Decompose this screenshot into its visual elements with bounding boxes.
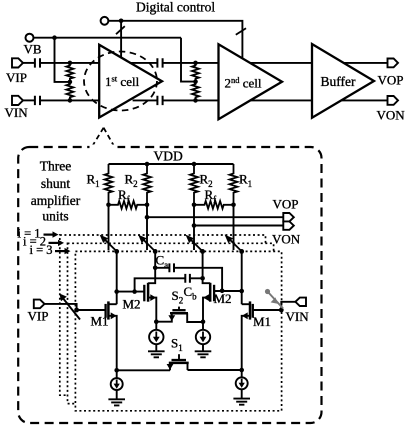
node: Cb to left gate bbox=[132, 289, 137, 294]
dotted unit box i=2 bbox=[68, 243, 274, 403]
ground bottom right bbox=[233, 399, 250, 405]
svg-text:Digital control: Digital control bbox=[136, 0, 215, 15]
coupling cap VIP input bbox=[35, 58, 40, 67]
node: bias mid 1st bbox=[68, 80, 73, 85]
current source bottom right bbox=[241, 370, 243, 377]
wire: VIN to coupling cap bbox=[23, 99, 34, 101]
current source bottom left bbox=[116, 370, 118, 378]
capacitor Ca plates bbox=[169, 263, 174, 272]
arrow i3 bbox=[55, 250, 65, 252]
wire: VON output bbox=[194, 225, 283, 227]
wire: VIP to M1L gate bbox=[45, 304, 77, 310]
svg-text:M1: M1 bbox=[253, 314, 271, 329]
wire: VB drop to 2nd bias network bbox=[181, 38, 196, 82]
capacitor Ca wire bbox=[155, 268, 222, 291]
feedback resistor Rf left bbox=[109, 201, 148, 209]
interstage cap bottom bbox=[157, 96, 162, 105]
svg-text:VOP: VOP bbox=[378, 73, 404, 88]
node: M2L source bbox=[154, 319, 159, 324]
selector switch 1 bbox=[104, 238, 117, 251]
dashed callout leg right bbox=[104, 128, 116, 149]
dashed callout leg left bbox=[92, 128, 103, 147]
wire: VIN rail to 1st cell bbox=[41, 99, 99, 101]
svg-text:VOP: VOP bbox=[273, 197, 299, 212]
node: VDD R2 left bbox=[145, 162, 150, 167]
terminal VB bbox=[26, 34, 34, 42]
resistor R2 left bbox=[143, 164, 151, 205]
svg-text:VIN: VIN bbox=[286, 309, 310, 324]
wire: digital control drop to 1st cell bbox=[120, 21, 122, 58]
wire: tail right bbox=[188, 369, 242, 371]
wire: VB bias line bbox=[34, 37, 181, 39]
svg-text:i = 3: i = 3 bbox=[30, 243, 53, 257]
gap in dashed box top for callout bbox=[90, 145, 118, 150]
wire: column 2 to switch bbox=[146, 205, 148, 250]
wire: VB drop to 1st bias network bbox=[55, 38, 70, 82]
wire: 2nd cell to buffer top bbox=[250, 62, 312, 64]
node: VIN rail bias tap bbox=[68, 98, 73, 103]
selector switch 4 bbox=[229, 238, 242, 251]
node: tail left bbox=[114, 368, 119, 373]
svg-text:shunt: shunt bbox=[41, 176, 71, 191]
wire: 1st cell out bottom bbox=[133, 99, 157, 101]
coupling cap VIN input bbox=[35, 96, 40, 105]
svg-text:VIN: VIN bbox=[5, 105, 29, 120]
bias resistor upper (2nd stage) bbox=[192, 63, 199, 82]
transistor M2 right bbox=[214, 290, 242, 292]
arrow i2 bbox=[49, 242, 59, 244]
svg-text:2nd cell: 2nd cell bbox=[225, 75, 262, 91]
wire: buffer out VOP bbox=[344, 62, 388, 64]
node: bias mid 2nd bbox=[193, 79, 198, 84]
transistor M2 left bbox=[117, 291, 145, 293]
node: M2R source bbox=[201, 319, 206, 324]
wire: column 3 to switch bbox=[193, 205, 195, 250]
node: VDD R2 right bbox=[192, 162, 197, 167]
node: Rf right A bbox=[192, 203, 197, 208]
wire: digital control bus to 2nd cell bbox=[109, 21, 243, 58]
ground M2R tail bbox=[195, 351, 212, 357]
node: Rf right B bbox=[231, 203, 236, 208]
wire: VIP to coupling cap bbox=[23, 62, 34, 64]
node: VON tap bbox=[192, 223, 197, 228]
wire: bottom rail to 2nd cell bbox=[163, 99, 218, 101]
wire: VIP rail to 1st cell bbox=[41, 62, 99, 64]
svg-text:VDD: VDD bbox=[154, 149, 183, 164]
svg-text:VON: VON bbox=[272, 232, 301, 247]
node: Rf left A bbox=[106, 203, 111, 208]
port VOP (bottom) bbox=[283, 213, 294, 221]
selector arrow VIN (gray) bbox=[265, 289, 283, 308]
wire: 2nd cell to buffer bottom bbox=[251, 99, 312, 101]
svg-text:M2: M2 bbox=[214, 291, 232, 306]
terminal: digital control input bbox=[101, 17, 109, 25]
port VIN (top) bbox=[12, 96, 23, 105]
wire: tail left bbox=[117, 369, 170, 371]
node: Ca tap on column 2 bbox=[153, 266, 158, 271]
node: VIN gate bbox=[279, 308, 284, 313]
port VIN (bottom) bbox=[295, 298, 306, 306]
wire: unit column 1 (M1L drain) bbox=[116, 251, 118, 304]
feedback resistor Rf right bbox=[194, 201, 234, 209]
svg-text:M2: M2 bbox=[123, 297, 141, 312]
current source M2L tail bbox=[155, 322, 157, 330]
wire: buffer out VON bbox=[342, 99, 388, 101]
node: M1L drain junction bbox=[114, 289, 119, 294]
wire: 1st cell out top bbox=[130, 62, 157, 64]
selector arrow VIP bbox=[64, 299, 81, 320]
node: Cb tap on column 3 bbox=[200, 276, 205, 281]
port VIP (bottom) bbox=[34, 300, 45, 309]
wire: column 4 to switch bbox=[233, 205, 235, 250]
svg-text:VON: VON bbox=[377, 108, 406, 123]
svg-text:1st cell: 1st cell bbox=[105, 74, 140, 90]
wire: unit column 2 (M2L drain) bbox=[148, 251, 155, 283]
svg-text:VB: VB bbox=[24, 42, 42, 57]
dotted unit box i=1 bbox=[60, 235, 266, 395]
wire: VOP output bbox=[147, 216, 283, 218]
arrow i1 bbox=[44, 234, 54, 236]
wire: VIN to M1R gate bbox=[281, 302, 295, 310]
port VIP (top) bbox=[12, 58, 23, 67]
node: top rail bias tap 2nd bbox=[193, 61, 198, 66]
node: VB junction bbox=[52, 35, 57, 40]
resistor R1 right bbox=[230, 164, 238, 205]
wire: VDD rail bbox=[109, 163, 234, 165]
bias resistor upper (1st stage) bbox=[66, 63, 73, 82]
wire: top rail to 2nd cell bbox=[163, 62, 218, 64]
svg-text:Three: Three bbox=[40, 159, 71, 174]
ground M2L tail bbox=[148, 351, 165, 357]
node: VIP gate bbox=[74, 308, 79, 313]
node: Rf left B bbox=[145, 203, 150, 208]
amplifier 2nd cell bbox=[219, 44, 283, 119]
port VOP (top) bbox=[388, 59, 399, 68]
capacitor Cb wire bbox=[135, 278, 203, 291]
svg-text:amplifier: amplifier bbox=[31, 193, 81, 208]
transistor M1 right bbox=[253, 309, 281, 311]
port VON (bottom) bbox=[283, 221, 294, 229]
bus slash on 2nd cell control bbox=[236, 28, 246, 35]
amplifier Buffer bbox=[312, 44, 374, 118]
svg-text:units: units bbox=[42, 209, 68, 224]
ground bottom left bbox=[108, 399, 125, 405]
svg-text:VIP: VIP bbox=[28, 309, 49, 324]
wire: column 1 to switch bbox=[108, 205, 110, 250]
transistor M1 left bbox=[77, 309, 106, 311]
node: VIP rail bias tap bbox=[68, 61, 73, 66]
interstage cap top bbox=[157, 58, 162, 67]
current source M2R tail bbox=[202, 322, 204, 330]
bias resistor lower (2nd stage) bbox=[192, 82, 199, 101]
node: tail right bbox=[239, 368, 244, 373]
selector switch 2 bbox=[142, 238, 155, 251]
switch S2 bbox=[178, 307, 180, 310]
bus slash on 1st cell control bbox=[116, 26, 125, 34]
switch S1 bbox=[178, 354, 180, 359]
resistor R2 right bbox=[190, 164, 198, 205]
dotted unit box i=3 bbox=[75, 251, 281, 410]
svg-text:Buffer: Buffer bbox=[321, 74, 356, 89]
svg-text:M1: M1 bbox=[91, 314, 109, 329]
node: VOP tap bbox=[145, 215, 150, 220]
bias resistor lower (1st stage) bbox=[66, 82, 73, 101]
wire: unit column 4 (M1R drain) bbox=[241, 251, 243, 304]
resistor R1 left bbox=[105, 164, 113, 205]
svg-text:VIP: VIP bbox=[6, 70, 27, 85]
node: bottom rail bias tap 2nd bbox=[193, 98, 198, 103]
node: M1R drain junction bbox=[239, 289, 244, 294]
amplifier 1st cell bbox=[99, 45, 162, 118]
wire: unit column 3 (M2R drain) bbox=[203, 251, 211, 283]
node: Ca to right gate bbox=[220, 289, 225, 294]
dashed circle around 1st cell bbox=[84, 52, 157, 111]
capacitor Cb plates bbox=[185, 274, 190, 283]
selector switch 3 bbox=[189, 238, 202, 251]
big dashed box bbox=[18, 147, 321, 423]
node: digital control junction bbox=[119, 19, 124, 24]
port VON (top) bbox=[388, 96, 399, 105]
